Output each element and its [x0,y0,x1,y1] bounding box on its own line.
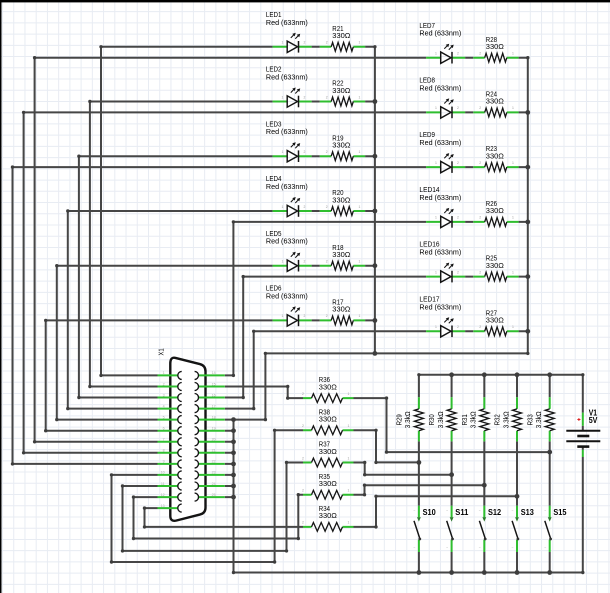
svg-text:2: 2 [479,52,481,56]
svg-text:330Ω: 330Ω [319,511,337,520]
svg-text:2: 2 [326,205,328,209]
svg-text:~: ~ [479,509,481,513]
svg-text:2: 2 [304,41,306,45]
svg-text:330Ω: 330Ω [332,86,350,95]
svg-text:1: 1 [282,314,284,318]
svg-text:R33: R33 [525,414,534,425]
svg-text:330Ω: 330Ω [486,316,504,325]
svg-text:1: 1 [348,489,350,493]
svg-text:2: 2 [457,52,459,56]
svg-text:330Ω: 330Ω [486,42,504,51]
svg-text:14: 14 [212,371,216,375]
svg-text:19: 19 [212,427,216,431]
svg-text:2: 2 [457,106,459,110]
svg-text:2: 2 [457,161,459,165]
svg-text:11: 11 [161,482,165,486]
svg-text:~: ~ [446,509,448,513]
svg-text:X1: X1 [156,348,165,355]
svg-text:2: 2 [326,314,328,318]
svg-text:Red (633nm): Red (633nm) [419,193,461,202]
svg-text:10: 10 [161,471,165,475]
svg-text:1: 1 [282,260,284,264]
svg-text:4: 4 [163,404,165,408]
svg-text:Red (633nm): Red (633nm) [419,248,461,257]
svg-text:2: 2 [457,325,459,329]
svg-text:~: ~ [544,509,546,513]
svg-text:2: 2 [302,521,304,525]
svg-text:13: 13 [161,504,165,508]
svg-text:330Ω: 330Ω [332,305,350,314]
svg-text:~: ~ [544,546,546,550]
svg-text:2: 2 [457,216,459,220]
svg-text:1: 1 [359,205,361,209]
svg-text:2: 2 [304,314,306,318]
svg-text:22: 22 [212,460,216,464]
svg-text:R31: R31 [460,414,469,425]
svg-text:330Ω: 330Ω [319,479,337,488]
svg-text:15: 15 [212,382,216,386]
svg-text:1: 1 [282,205,284,209]
svg-text:1: 1 [348,521,350,525]
svg-text:330Ω: 330Ω [486,261,504,270]
svg-text:24: 24 [212,482,216,486]
svg-text:23: 23 [212,471,216,475]
svg-text:2: 2 [163,382,165,386]
svg-text:330Ω: 330Ω [486,151,504,160]
svg-text:2: 2 [326,150,328,154]
svg-text:2: 2 [479,270,481,274]
svg-text:9: 9 [163,460,165,464]
svg-text:2: 2 [479,325,481,329]
svg-text:12: 12 [161,493,165,497]
svg-text:1: 1 [512,106,514,110]
svg-text:3: 3 [163,393,165,397]
svg-text:1: 1 [435,52,437,56]
svg-text:2: 2 [479,216,481,220]
svg-text:S13: S13 [521,507,534,517]
svg-text:1: 1 [348,424,350,428]
svg-text:2: 2 [304,260,306,264]
svg-text:~: ~ [512,546,514,550]
svg-text:6: 6 [163,427,165,431]
svg-text:S15: S15 [553,507,566,517]
svg-text:330Ω: 330Ω [319,382,337,391]
svg-text:2: 2 [304,150,306,154]
svg-text:17: 17 [212,404,216,408]
svg-text:1: 1 [348,392,350,396]
svg-text:7: 7 [163,438,165,442]
svg-text:2: 2 [479,161,481,165]
svg-text:1: 1 [163,371,165,375]
svg-text:1: 1 [435,325,437,329]
svg-text:1: 1 [282,150,284,154]
svg-text:Red (633nm): Red (633nm) [419,302,461,311]
svg-text:1: 1 [359,150,361,154]
svg-text:2: 2 [302,392,304,396]
svg-text:~: ~ [413,509,415,513]
svg-text:2: 2 [302,456,304,460]
svg-text:2: 2 [479,106,481,110]
svg-text:Red (633nm): Red (633nm) [266,18,308,27]
svg-text:2: 2 [302,489,304,493]
svg-text:R32: R32 [493,414,502,425]
svg-text:5: 5 [163,415,165,419]
svg-text:R30: R30 [427,414,436,425]
svg-text:330Ω: 330Ω [332,195,350,204]
svg-text:2: 2 [302,424,304,428]
svg-text:1: 1 [359,260,361,264]
svg-text:Red (633nm): Red (633nm) [419,29,461,38]
svg-text:1: 1 [359,314,361,318]
svg-text:1: 1 [435,161,437,165]
svg-text:2: 2 [304,205,306,209]
svg-text:18: 18 [212,415,216,419]
svg-text:1: 1 [512,270,514,274]
svg-text:330Ω: 330Ω [332,250,350,259]
svg-text:3.3kΩ: 3.3kΩ [501,411,510,428]
svg-text:25: 25 [212,493,216,497]
svg-text:Red (633nm): Red (633nm) [266,73,308,82]
svg-text:1: 1 [512,161,514,165]
svg-text:~: ~ [446,546,448,550]
svg-text:330Ω: 330Ω [332,31,350,40]
svg-text:2: 2 [326,95,328,99]
svg-text:1: 1 [348,456,350,460]
svg-text:1: 1 [359,41,361,45]
svg-text:330Ω: 330Ω [486,206,504,215]
svg-text:3.3kΩ: 3.3kΩ [403,411,412,428]
svg-text:Red (633nm): Red (633nm) [266,182,308,191]
svg-text:1: 1 [435,270,437,274]
svg-text:~: ~ [413,546,415,550]
svg-text:330Ω: 330Ω [486,97,504,106]
svg-text:3.3kΩ: 3.3kΩ [469,411,478,428]
svg-text:R29: R29 [395,414,404,425]
svg-text:1: 1 [435,106,437,110]
svg-text:S11: S11 [455,507,468,517]
svg-text:5V: 5V [589,415,598,425]
svg-text:Red (633nm): Red (633nm) [419,138,461,147]
svg-text:16: 16 [212,393,216,397]
svg-text:2: 2 [326,260,328,264]
svg-text:1: 1 [359,95,361,99]
svg-text:S10: S10 [423,507,436,517]
svg-text:S12: S12 [488,507,501,517]
svg-text:8: 8 [163,449,165,453]
svg-text:21: 21 [212,449,216,453]
svg-text:Red (633nm): Red (633nm) [419,83,461,92]
svg-text:Red (633nm): Red (633nm) [266,237,308,246]
svg-text:1: 1 [512,325,514,329]
svg-text:~: ~ [512,509,514,513]
svg-text:3.3kΩ: 3.3kΩ [534,411,543,428]
svg-text:1: 1 [512,52,514,56]
svg-text:1: 1 [282,41,284,45]
svg-text:1: 1 [282,95,284,99]
svg-text:330Ω: 330Ω [319,415,337,424]
svg-text:330Ω: 330Ω [332,141,350,150]
svg-text:~: ~ [479,546,481,550]
svg-text:2: 2 [457,270,459,274]
svg-text:20: 20 [212,438,216,442]
svg-text:Red (633nm): Red (633nm) [266,291,308,300]
svg-text:Red (633nm): Red (633nm) [266,127,308,136]
svg-text:3.3kΩ: 3.3kΩ [436,411,445,428]
svg-text:2: 2 [326,41,328,45]
svg-text:330Ω: 330Ω [319,447,337,456]
svg-text:1: 1 [512,216,514,220]
svg-text:2: 2 [304,95,306,99]
svg-text:1: 1 [435,216,437,220]
